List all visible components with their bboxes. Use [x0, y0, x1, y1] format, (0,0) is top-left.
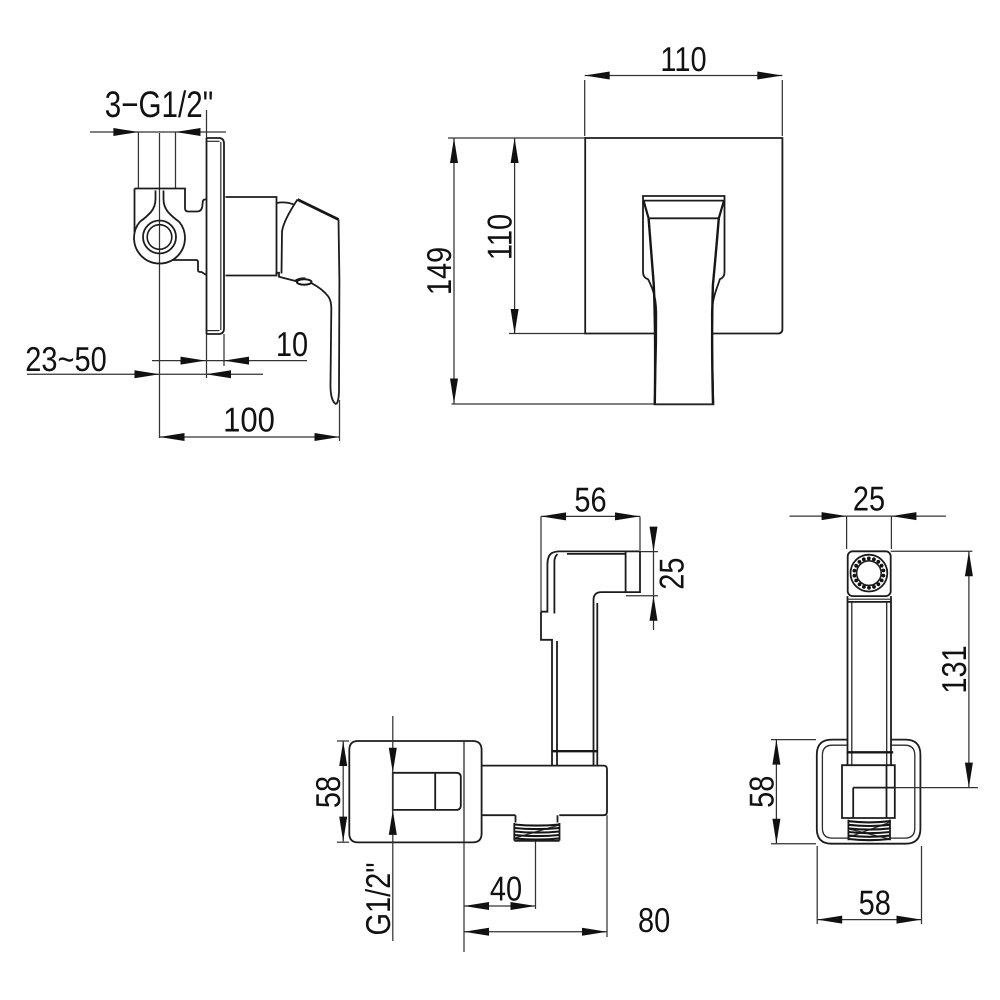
sprayer end cap divider: [625, 552, 627, 592]
spray nozzle dots: [882, 574, 886, 578]
port circle middle: [143, 221, 176, 254]
svg-text:40: 40: [490, 871, 522, 909]
bracket plate front view: [817, 740, 921, 844]
sprayer handle inner left: [556, 641, 558, 765]
sprayer head inner edge: [554, 554, 557, 614]
handle hub top arc: [277, 202, 294, 204]
hose thread sides: [514, 823, 559, 841]
extension bracket top: [337, 740, 349, 742]
handle blade inner edge upper: [282, 200, 298, 274]
arrow 58s bottom: [339, 817, 347, 842]
svg-text:G1/2": G1/2": [360, 862, 398, 935]
spout lip lower line: [643, 200, 725, 202]
port boss outer arc: [134, 222, 185, 264]
spout bottom edge: [655, 403, 714, 405]
bracket arm top and right: [482, 766, 607, 816]
svg-text:110: 110: [482, 214, 520, 260]
svg-text:3−G1/2": 3−G1/2": [105, 84, 213, 125]
dimension 80 line: [464, 931, 607, 933]
arrow 23~50 left: [135, 370, 160, 378]
dimension 25 front line: [790, 515, 946, 517]
sprayer handle front edges: [848, 596, 892, 765]
socket inner step horizontal: [853, 787, 895, 789]
handle front collar joint: [847, 751, 893, 753]
arrow 3-G1/2 right: [176, 128, 201, 136]
svg-text:149: 149: [421, 247, 459, 295]
extension bracket right down: [921, 846, 923, 924]
sprayer handle front: [848, 596, 892, 765]
handle set-screw oval: [297, 279, 312, 284]
stem taper left: [140, 191, 156, 222]
handle hub underside: [277, 273, 297, 281]
valve body top edge and notch: [135, 189, 207, 212]
cartridge housing: [226, 197, 277, 276]
spray face outer circle: [851, 555, 888, 592]
extension bracket left down: [816, 846, 818, 924]
extension bracket front bottom: [771, 843, 816, 845]
arrow 131 bottom: [965, 763, 973, 788]
arrow 56 right: [615, 512, 640, 520]
bracket arm bottom left part: [482, 814, 516, 816]
arrow 110 left: [585, 72, 610, 80]
handle set-screw top arc: [296, 278, 306, 280]
socket hose nut edge: [886, 765, 888, 818]
extension arm right up: [639, 516, 641, 550]
svg-text:56: 56: [574, 481, 606, 519]
handle blade inner edge lower: [312, 283, 337, 404]
arrow 100 right: [315, 433, 340, 441]
extension arm top: [640, 551, 658, 553]
sprayer head front: [848, 551, 891, 596]
valve body bottom edge: [172, 260, 206, 275]
wall line lower extension: [206, 334, 208, 378]
thread front ridges: [849, 823, 890, 838]
bracket plate inner edge: [822, 745, 914, 838]
hose thread bottom: [514, 840, 559, 842]
extension plate top to 149: [448, 137, 585, 139]
extension plate right: [781, 80, 783, 136]
extension bracket bottom: [337, 841, 349, 843]
inlet boss: [393, 773, 461, 810]
arrow 56 left: [541, 512, 566, 520]
dimension G1/2 line: [392, 716, 394, 941]
plate top inner edge: [207, 140, 220, 142]
sprayer outline right: [541, 551, 640, 765]
spout lip bottom line: [649, 217, 719, 219]
dimension 10 line: [152, 360, 307, 362]
handle front inner right: [886, 602, 888, 765]
handle front inner left: [851, 602, 853, 765]
arrow G1/2 top: [389, 748, 397, 773]
arrow 149 bottom: [450, 379, 458, 404]
dimension 23~50 line: [27, 373, 263, 375]
arrow 131 top: [965, 551, 973, 576]
spout outline: [643, 196, 725, 404]
inlet boss end cap line: [434, 773, 436, 810]
spout waterfall left profile: [649, 218, 656, 403]
svg-text:58: 58: [859, 885, 891, 923]
dimension 149 line: [453, 138, 455, 404]
hose thread ridges: [515, 825, 559, 838]
spray face inner circle: [857, 561, 882, 586]
svg-text:100: 100: [223, 402, 275, 440]
dimension 40 line: [464, 905, 536, 907]
extension wall face down: [463, 843, 465, 952]
svg-text:80: 80: [638, 902, 670, 940]
extension head top: [891, 550, 973, 552]
arrow 10 left: [181, 357, 206, 365]
extension plate bottom: [509, 333, 585, 335]
socket block: [842, 765, 895, 818]
sprayer handle inner right: [596, 603, 598, 765]
arrow 25 top: [650, 527, 658, 552]
plate back edge: [206, 138, 208, 334]
arrow 58f top: [772, 740, 780, 765]
hose connector neck: [516, 815, 558, 822]
arrow 110v bottom: [511, 309, 519, 334]
plate outline: [207, 138, 225, 334]
sprayer collar joint: [552, 750, 598, 752]
svg-text:131: 131: [936, 645, 974, 693]
handle blade top edge: [298, 200, 339, 220]
plate front inner edge: [220, 142, 222, 330]
extension arm bottom: [626, 595, 658, 597]
svg-text:25: 25: [654, 557, 692, 589]
arrow 58f bottom: [772, 819, 780, 844]
sprayer head protrusion and handle front: [541, 612, 552, 766]
valve center line: [159, 133, 161, 438]
extension hose center 131: [895, 787, 978, 789]
extension arm right down: [606, 815, 608, 937]
extension line port left: [137, 132, 139, 189]
svg-text:10: 10: [276, 326, 308, 364]
extension head left: [846, 516, 848, 549]
extension hose center: [535, 842, 537, 910]
dimension 56 line: [541, 515, 640, 517]
svg-text:110: 110: [660, 41, 706, 79]
arrow 3-G1/2 left: [113, 128, 138, 136]
arrow 40 left: [464, 902, 489, 910]
arrow 10 right: [224, 357, 249, 365]
dimension 131 line: [968, 551, 970, 787]
extension line handle tip: [339, 400, 341, 441]
stem taper right: [164, 191, 180, 222]
arrow 80 left: [464, 928, 489, 936]
arrow 80 right: [582, 928, 607, 936]
extension plate left: [584, 80, 586, 136]
handle front neck line: [848, 598, 890, 600]
dimension 3-G1/2 line: [90, 131, 226, 133]
dimension 110 vertical line: [514, 138, 516, 334]
wall line upper extension: [206, 110, 208, 138]
arrow 110 right: [757, 72, 782, 80]
spout waterfall right profile: [712, 218, 719, 403]
svg-text:23~50: 23~50: [25, 341, 106, 379]
arrow 25 bottom: [650, 596, 658, 621]
arrow 149 top: [450, 138, 458, 163]
arrow 40 right: [511, 902, 536, 910]
dimension 100 line: [160, 436, 340, 438]
arrow 100 left: [160, 433, 185, 441]
arrow 58s top: [339, 741, 347, 766]
bracket plate side: [349, 741, 481, 842]
plate bottom inner edge: [207, 330, 220, 332]
handle front joint line: [848, 601, 892, 603]
extension line port right: [175, 132, 177, 189]
sprayer arm top inner line: [567, 553, 626, 555]
svg-text:58: 58: [310, 776, 348, 808]
thread front sides: [848, 820, 890, 841]
dimension 110 top line: [585, 75, 783, 77]
arrow 23~50 right: [206, 370, 231, 378]
dimension 58 side line: [342, 741, 344, 842]
arrow 110v top: [511, 138, 519, 163]
arrow G1/2 bottom: [389, 810, 397, 835]
bracket plate front crease: [463, 741, 465, 842]
socket inner step vertical: [852, 788, 854, 818]
spout lip taper left: [644, 201, 649, 219]
arrow 25f right: [891, 512, 916, 520]
extension bracket front top: [771, 739, 816, 741]
dimension 58 front-left line: [775, 740, 777, 844]
svg-text:25: 25: [853, 481, 885, 519]
extension head right: [890, 516, 892, 549]
thread front block: [848, 820, 890, 841]
arrow 58b right: [897, 916, 922, 924]
extension spout bottom: [452, 403, 655, 405]
handle blade right edge: [336, 220, 339, 405]
arrow 25f left: [822, 512, 847, 520]
valve body left edge: [134, 189, 136, 233]
svg-text:58: 58: [743, 776, 781, 808]
extension head face up: [540, 516, 542, 611]
dimension 58 bottom line: [817, 919, 921, 921]
arrow 58b left: [817, 916, 842, 924]
plate front lower extension: [223, 334, 225, 366]
port circle inner: [147, 225, 172, 250]
dimension 25 line: [653, 527, 655, 630]
wall plate front: [585, 138, 782, 334]
spout lip taper right: [719, 201, 724, 219]
